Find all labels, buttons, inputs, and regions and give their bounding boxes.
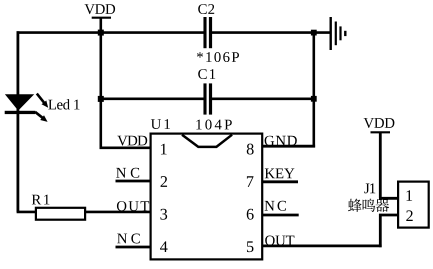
U1 pin1 label VDD xyxy=(117,136,147,146)
wire: U1 pin8 GND wire to ground net xyxy=(262,145,316,148)
LED label Led 1 xyxy=(48,99,79,109)
C1 label xyxy=(198,69,215,79)
J1 reference label xyxy=(364,183,375,193)
C2 label xyxy=(198,4,214,14)
power VDD (right, for J1) xyxy=(364,118,395,128)
J1 label char feng (蜂) xyxy=(348,199,362,212)
wire: vertical net from ground rail down to GND pin wire xyxy=(312,31,315,147)
wire: VDD stem down to U1 pin 1 xyxy=(100,18,103,148)
U1 pin2 label NC xyxy=(116,168,139,178)
C2 value *106P xyxy=(197,52,239,62)
LED cathode bar xyxy=(5,111,35,114)
J1 label char qi (器) xyxy=(375,199,389,212)
J1 pin number 1 xyxy=(406,190,412,201)
pin number 3 xyxy=(160,209,167,220)
J1 pin number 2 xyxy=(406,210,412,221)
C1 value 104P xyxy=(196,120,231,130)
LED light arrow 1 xyxy=(37,94,44,103)
node: junction VDD / top rail xyxy=(98,30,104,36)
wire: C2 right plate to earth ground xyxy=(212,31,331,34)
U1 pin8 label GND xyxy=(265,136,297,146)
R1 label xyxy=(32,195,50,205)
ground (earth symbol, rotated) xyxy=(330,17,332,50)
pin number 2 xyxy=(161,176,167,187)
pin number 1 xyxy=(161,144,167,155)
pin number 5 xyxy=(247,241,254,252)
wire: left vertical rail (top corner down through LED to R1) xyxy=(16,31,19,212)
node: junction top rail / ground net xyxy=(311,30,317,36)
U1 pin3 label OUT xyxy=(117,201,149,211)
U1 reference label xyxy=(151,119,170,129)
capacitor C1 xyxy=(203,83,206,114)
wire: U1 pin2 NC stub xyxy=(116,180,151,183)
pin number 7 xyxy=(247,176,254,187)
pin number 6 xyxy=(247,209,254,220)
LED light arrow 2 xyxy=(35,112,43,119)
U1 pin6 label NC xyxy=(265,201,286,211)
wire: J1 pin1 wire xyxy=(379,197,398,200)
node: junction VDD stem / C1 left wire xyxy=(98,96,104,102)
U1 pin7 label KEY xyxy=(265,169,295,179)
connector J1 box xyxy=(398,182,429,228)
power VDD (top left) xyxy=(84,4,115,14)
pin number 8 xyxy=(247,144,254,155)
wire: vertical riser from OUT wire up to J1 pin2 xyxy=(379,214,382,247)
capacitor C2 xyxy=(203,17,206,48)
node: junction C1 right wire / ground net xyxy=(311,96,317,102)
U1 notch xyxy=(182,135,232,147)
LED Led1 triangle (anode) xyxy=(5,94,34,110)
wire: U1 pin1 VDD wire xyxy=(100,147,151,150)
pin number 4 xyxy=(160,241,168,252)
wire: U1 pin6 NC stub xyxy=(262,214,299,217)
wire: OUT pin3 wire from left rail through R1 to U1 xyxy=(17,211,151,214)
wire: top horizontal rail from left corner to C2 left plate xyxy=(17,31,205,34)
wire: U1 pin7 KEY stub xyxy=(262,180,299,183)
wire: C1 right wire xyxy=(212,98,315,101)
wire: U1 pin5 OUT wire to J1 pin2 riser xyxy=(262,244,382,247)
J1 label char ming (鸣) xyxy=(363,199,376,212)
resistor R1 body xyxy=(36,208,85,220)
IC U1 body xyxy=(151,134,263,260)
wire: J1 pin2 wire xyxy=(379,214,398,217)
wire: U1 pin4 NC stub xyxy=(116,246,151,249)
wire: C1 left wire xyxy=(100,98,205,101)
U1 pin5 label OUT xyxy=(265,236,294,246)
U1 pin4 label NC xyxy=(117,234,140,244)
wire: VDD stem down to J1 pin1 xyxy=(379,133,382,198)
